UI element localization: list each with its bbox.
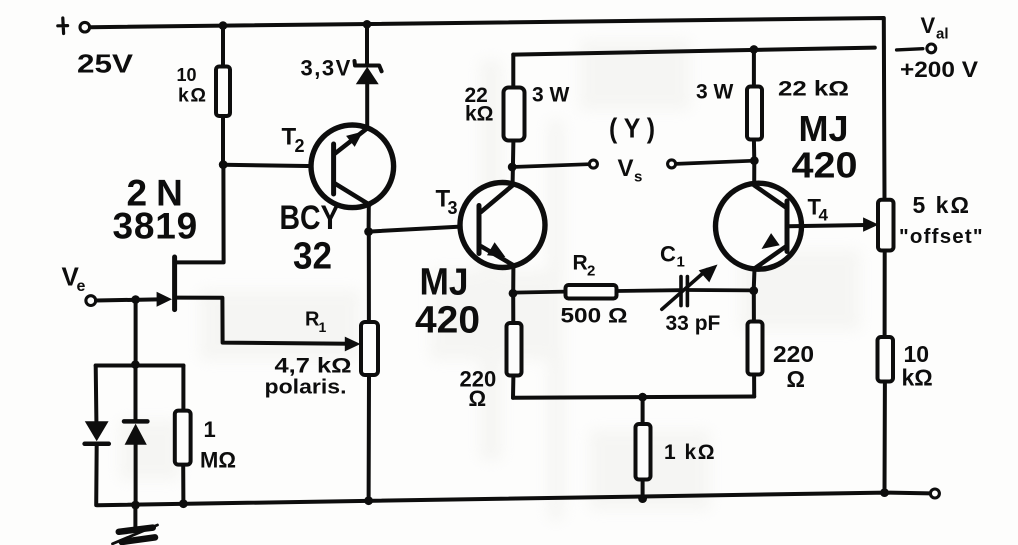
junction: rail / R1	[364, 496, 373, 505]
svg-text:3,3V: 3,3V	[301, 56, 352, 81]
transistor T2 collector diagonal with arrow	[335, 129, 367, 154]
transistor T2 BCY32 body	[311, 125, 394, 208]
junction: 10k / T2 base / JFET drain node	[219, 160, 228, 169]
svg-text:220: 220	[773, 341, 814, 367]
junction: T2 emitter / T3 base / R1	[364, 227, 373, 236]
ground symbol	[119, 528, 153, 532]
svg-text:1: 1	[677, 254, 685, 271]
wire: 220 left top lead	[511, 293, 515, 323]
svg-text:1: 1	[319, 319, 327, 335]
wire: left 22k bottom lead	[511, 141, 516, 184]
wire: inner bottom wire between 220 resistors	[513, 397, 754, 398]
svg-text:Ω: Ω	[469, 386, 487, 411]
svg-text:5 kΩ: 5 kΩ	[913, 192, 971, 218]
svg-text:420: 420	[415, 300, 480, 342]
junction: rail / 1k	[638, 494, 647, 503]
ground symbol stem	[133, 505, 137, 528]
terminal: Vs (right open circle)	[668, 160, 676, 168]
svg-text:polaris.: polaris.	[265, 377, 347, 399]
potentiometer 5k wiper arrow	[863, 217, 879, 231]
junction: Ve node	[131, 295, 140, 304]
transistor T3 MJ420 body	[460, 183, 545, 268]
wire: left diode lower lead	[94, 444, 99, 505]
potentiometer R1 body	[361, 322, 378, 375]
svg-text:+200 V: +200 V	[900, 57, 978, 82]
wire: right 10k bottom lead	[883, 382, 887, 493]
svg-text:2: 2	[587, 263, 595, 280]
svg-text:33 pF: 33 pF	[666, 312, 721, 335]
resistor 1 kOhm body	[636, 424, 651, 480]
svg-text:25V: 25V	[77, 49, 134, 79]
svg-text:MJ: MJ	[420, 262, 469, 304]
junction: rail / right vertical	[880, 488, 889, 497]
terminal: Vs (left open circle)	[589, 160, 597, 168]
zener diode 3.3V top lead	[365, 24, 369, 64]
resistor 1 MOhm leads	[181, 366, 185, 504]
zener diode 3.3V triangle	[356, 67, 379, 85]
svg-text:2: 2	[295, 136, 305, 156]
svg-text:500 Ω: 500 Ω	[561, 305, 628, 328]
wire: left diode upper lead	[94, 366, 99, 422]
transistor Q1 2N3819 gate arrow	[157, 292, 172, 307]
svg-text:1 kΩ: 1 kΩ	[664, 441, 716, 464]
transistor T4 collector diagonal	[754, 185, 787, 208]
resistor 22 kOhm (left) body	[504, 88, 525, 141]
svg-text:R: R	[573, 252, 588, 275]
svg-text:3: 3	[448, 198, 458, 218]
wire: C1 to T4 emitter node	[689, 288, 751, 292]
wire: right 22k bottom lead	[752, 140, 756, 161]
svg-text:BCY: BCY	[280, 199, 340, 237]
wire: node to T3 base	[369, 226, 479, 232]
wire: node to T2 base	[223, 165, 334, 167]
wire: right 22k top lead	[752, 49, 756, 86]
junction: T3 emitter node	[509, 289, 518, 298]
svg-text:22 kΩ: 22 kΩ	[778, 77, 849, 101]
wire: emitter node to R2	[513, 292, 566, 293]
wire: 5k pot to 10k	[883, 251, 887, 338]
svg-text:1: 1	[204, 417, 216, 442]
wire: JFET source to R1 wiper	[177, 298, 350, 344]
junction: diode bracket top	[131, 360, 140, 369]
resistor 220 Ohm (right) body	[748, 322, 763, 375]
resistor 10 kOhm (right) body	[878, 337, 894, 382]
wire: T3 emitter down	[511, 266, 515, 293]
transistor T3 collector diagonal	[481, 186, 512, 212]
resistor R2 500 Ohm body	[566, 285, 617, 299]
svg-text:3819: 3819	[113, 206, 199, 247]
wire: Ve gate wire	[96, 299, 158, 300]
zener diode 3.3V cathode bar	[355, 61, 382, 71]
wire: 1k bottom lead	[641, 480, 645, 499]
svg-text:32: 32	[293, 236, 332, 278]
wire: JFET drain riser	[176, 165, 224, 263]
potentiometer 5 kOhm offset body	[878, 200, 894, 251]
wire: ground bottom rail	[97, 493, 930, 506]
terminal: +25V supply (plus sign)	[58, 18, 68, 34]
svg-text:e: e	[77, 278, 86, 295]
svg-text:3 W: 3 W	[696, 81, 734, 104]
svg-text:MΩ: MΩ	[200, 448, 236, 473]
resistor 22 kOhm (right) body	[747, 87, 762, 140]
transistor T2 emitter diagonal	[335, 184, 370, 205]
svg-text:al: al	[936, 26, 949, 43]
junction: rail / diode chain	[131, 501, 140, 510]
wire: R1 bottom lead	[367, 375, 371, 501]
svg-text:"offset": "offset"	[899, 225, 984, 248]
junction: right 22k / Vs right / T4 collector	[750, 156, 759, 165]
wire: 220 left bottom lead	[511, 376, 515, 398]
svg-text:s: s	[634, 169, 642, 186]
wire: diode bracket top bar	[96, 364, 184, 368]
wire: T2 emitter down to node	[367, 205, 371, 232]
wire: 220 right top lead	[752, 291, 756, 322]
terminal: Ve input (open circle)	[86, 296, 96, 306]
transistor T3 emitter diagonal with arrow	[481, 246, 514, 265]
wire: Ve node down to diode bracket	[134, 300, 138, 365]
wire: T4 emitter down	[752, 269, 757, 291]
svg-text:( Y ): ( Y )	[609, 113, 655, 144]
terminal: +25V supply (open circle)	[80, 22, 90, 32]
svg-text:Ω: Ω	[787, 366, 805, 392]
svg-text:kΩ: kΩ	[902, 365, 933, 391]
potentiometer R1 wiper arrow	[345, 337, 361, 352]
junction: top rail / 10k resistor	[219, 21, 228, 30]
svg-text:V: V	[921, 13, 936, 38]
terminal: bottom right (open circle)	[930, 489, 939, 498]
junction: +200V rail / right 22k	[750, 45, 759, 54]
junction: T3 collector / Vs	[508, 163, 517, 172]
svg-text:10: 10	[177, 65, 197, 85]
svg-text:4,7 kΩ: 4,7 kΩ	[275, 355, 352, 378]
zener diode 3.3V bottom lead	[365, 84, 369, 128]
wire: T4 base to 5k wiper	[788, 225, 867, 226]
wire: 220 right bottom lead	[752, 375, 756, 397]
svg-text:10: 10	[904, 341, 930, 367]
transistor T3 base bar	[477, 206, 482, 254]
wire: 10k bottom lead	[221, 116, 225, 165]
svg-text:C: C	[660, 242, 676, 267]
wire: +200V rail	[513, 48, 875, 55]
junction: top rail / zener	[363, 20, 372, 29]
svg-text:kΩ: kΩ	[465, 103, 494, 126]
svg-text:3 W: 3 W	[532, 84, 570, 107]
junction: inner bottom / 1k	[638, 393, 647, 402]
svg-text:420: 420	[792, 145, 858, 186]
wire: to Vs left terminal	[512, 164, 589, 167]
svg-text:4: 4	[819, 206, 829, 225]
svg-text:V: V	[618, 155, 634, 182]
wire: T4 collector lead	[752, 161, 756, 184]
transistor T4 base bar	[785, 201, 790, 252]
wire: node down to R1	[367, 232, 371, 322]
resistor 10 kOhm (upper left)	[216, 67, 230, 117]
resistor 1 MOhm body	[175, 411, 191, 465]
wire: +25V top rail to top-right corner and down right edge	[90, 18, 884, 200]
wire: Val terminal dash	[897, 49, 923, 50]
diode D2 (cathode up)	[134, 365, 138, 422]
capacitor C1 trimmer arrow	[662, 270, 707, 310]
transistor Q1 2N3819 channel bar	[172, 257, 177, 310]
resistor 220 Ohm (left) body	[507, 323, 522, 376]
transistor T4 emitter diagonal with arrow	[755, 246, 787, 269]
wire: R2 to C1	[617, 288, 680, 293]
svg-text:MJ: MJ	[799, 108, 849, 149]
transistor T2 base bar	[331, 144, 336, 194]
wire: 10k top lead	[221, 26, 225, 67]
wire: +200V rail corner down to left 22k	[511, 55, 515, 88]
capacitor C1 plates	[681, 277, 687, 306]
wire: right circle to 22k right branch	[676, 161, 755, 164]
transistor T4 MJ420 body	[716, 183, 802, 269]
terminal: Val (open circle)	[927, 44, 936, 53]
wire: 1k top lead	[641, 397, 645, 424]
svg-text:kΩ: kΩ	[178, 85, 207, 107]
junction: T4 emitter node	[749, 286, 758, 295]
diode D1 (cathode down)	[85, 421, 109, 441]
junction: rail / 1M	[179, 499, 188, 508]
